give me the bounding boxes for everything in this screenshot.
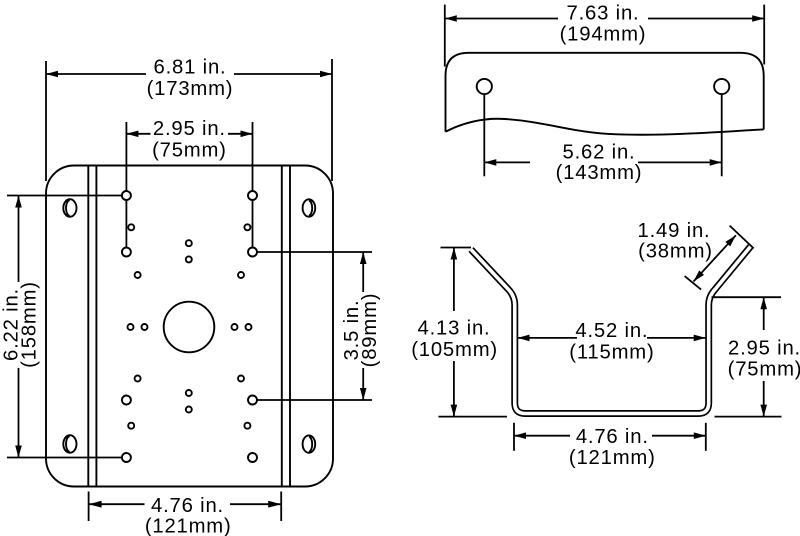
svg-text:(121mm): (121mm) — [569, 447, 656, 469]
dim 7.63 ext line left — [444, 5, 446, 67]
dim 1.49 arrow lower — [694, 270, 705, 281]
dim 6.81 arrow left — [46, 71, 58, 78]
strap wavy bottom edge — [446, 119, 764, 135]
svg-text:5.62 in.: 5.62 in. — [563, 141, 636, 163]
svg-text:(75mm): (75mm) — [728, 359, 800, 381]
bend line right inner — [281, 166, 283, 487]
dim 5.62 arrow right — [710, 159, 722, 166]
small hole B2 — [244, 224, 250, 230]
dim 4.76 plate arrow left — [89, 501, 102, 508]
pair hole E1 — [128, 324, 134, 330]
hole C4 — [248, 396, 257, 405]
dim 1.49 line — [694, 235, 736, 281]
pair hole E4 — [246, 324, 252, 330]
dim 6.81 ext line left — [45, 61, 47, 181]
svg-text:(194mm): (194mm) — [560, 23, 647, 45]
svg-text:3.5 in.(89mm): 3.5 in.(89mm) — [341, 293, 381, 368]
dim 4.76 plate line — [89, 503, 145, 505]
hole A4 — [248, 453, 257, 462]
channel sheet outer stroke — [471, 247, 751, 414]
dim 1.49 tick upper — [730, 226, 754, 249]
hole C1 — [122, 248, 131, 257]
dim 6.22 ext line top — [7, 195, 122, 197]
center small hole top1 — [186, 240, 192, 246]
dim 3.5 ext line bottom — [257, 399, 372, 401]
channel ref line bottom-left — [439, 416, 508, 418]
small hole B3 — [128, 423, 134, 429]
small hole D2 — [238, 272, 244, 278]
dim 4.52 line — [518, 337, 578, 339]
svg-text:(121mm): (121mm) — [145, 516, 232, 536]
small hole B1 — [128, 224, 134, 230]
dim 4.52 arrow right — [694, 335, 706, 342]
small hole B4 — [244, 423, 250, 429]
dim 6.81 line — [46, 73, 146, 75]
dim 1.49 arrow upper — [725, 235, 736, 246]
dim 4.76 channel tick left — [513, 423, 515, 451]
plate outline — [46, 166, 333, 487]
dim 2.95 arrow left — [126, 131, 138, 138]
dim 4.13 line — [453, 248, 455, 312]
dim 2.95 ext line left — [125, 122, 127, 191]
dim 5.62 ext line left — [483, 94, 485, 176]
dim 4.76 plate tick right — [280, 492, 282, 522]
dim 2.95 ext line right — [252, 122, 254, 191]
hole A2 — [248, 191, 257, 200]
dim 7.63 ext line right — [763, 5, 765, 65]
svg-text:2.95 in.: 2.95 in. — [153, 118, 226, 140]
dim 1.49 tick lower — [685, 276, 702, 290]
hole A1 — [122, 191, 131, 200]
dim 4.76 plate tick left — [88, 492, 90, 522]
dim 3.5 arrow down — [360, 388, 367, 400]
dim 6.22 ext line bottom — [7, 457, 122, 459]
dim 7.63 arrow left — [445, 15, 457, 22]
dim 4.76 channel arrow right — [694, 432, 706, 439]
dim 7.63 arrow right — [752, 15, 764, 22]
svg-text:(173mm): (173mm) — [147, 78, 234, 100]
svg-text:4.52 in.: 4.52 in. — [575, 320, 648, 342]
center small hole bottom2 — [186, 407, 192, 413]
channel ref line top-left — [441, 247, 472, 249]
center small hole top2 — [186, 256, 192, 262]
pair hole E3 — [232, 324, 238, 330]
bend line right outer — [289, 166, 291, 487]
dim 6.22 arrow down — [15, 446, 22, 458]
dim 6.81 arrow right — [320, 71, 332, 78]
dim 4.13 arrow up — [451, 248, 458, 260]
dim 5.62 ext line right — [721, 94, 723, 176]
svg-text:6.81 in.: 6.81 in. — [154, 57, 227, 79]
dim 4.76 plate arrow right — [268, 501, 281, 508]
dim 4.76 channel line — [514, 435, 570, 437]
dim 2.95 arrow right — [241, 131, 253, 138]
small hole D1 — [135, 272, 141, 278]
svg-text:4.13 in.: 4.13 in. — [418, 318, 491, 340]
svg-text:4.76 in.: 4.76 in. — [576, 426, 649, 448]
small hole D3 — [135, 376, 141, 382]
dim 6.81 ext line right — [331, 59, 333, 181]
dim 3.5 ext line top — [257, 251, 372, 253]
dim 2.95 line — [126, 133, 150, 135]
svg-text:(38mm): (38mm) — [638, 241, 713, 263]
dim 6.22 line — [18, 196, 20, 283]
dim 6.22 arrow up — [15, 196, 22, 208]
center large hole — [164, 302, 215, 353]
pair hole E2 — [142, 324, 148, 330]
dim 4.76 channel arrow left — [514, 432, 526, 439]
small hole D4 — [238, 376, 244, 382]
svg-text:7.63 in.: 7.63 in. — [567, 3, 640, 25]
channel ref line top-right — [712, 296, 782, 298]
dim 5.62 arrow left — [484, 159, 496, 166]
dim 2.95 channel arrow down — [760, 405, 767, 417]
dim 3.5 arrow up — [360, 252, 367, 264]
slot hole top-right — [303, 199, 316, 216]
strap hole right — [714, 79, 729, 94]
dim 5.62 line — [484, 161, 530, 163]
svg-text:(143mm): (143mm) — [556, 162, 643, 184]
dim 2.95 channel line — [763, 297, 765, 330]
strap hole left — [477, 79, 492, 94]
bend line left outer — [87, 166, 89, 487]
center small hole bottom1 — [186, 390, 192, 396]
slot hole top-left — [63, 199, 76, 217]
svg-text:2.95 in.: 2.95 in. — [728, 338, 800, 360]
hole C2 — [248, 248, 257, 257]
svg-text:(75mm): (75mm) — [152, 139, 227, 161]
svg-text:6.22 in.(158mm): 6.22 in.(158mm) — [1, 281, 41, 368]
dim 2.95 channel arrow up — [760, 297, 767, 309]
channel sheet inner white — [471, 247, 751, 414]
svg-text:(105mm): (105mm) — [411, 339, 498, 361]
dim 4.52 arrow left — [518, 335, 530, 342]
slot hole bottom-right — [303, 435, 316, 452]
dim 4.13 arrow down — [451, 405, 458, 417]
dim 4.76 channel tick right — [705, 423, 707, 451]
dim 3.5 line — [362, 252, 364, 292]
hole A3 — [122, 453, 131, 462]
svg-text:1.49 in.: 1.49 in. — [638, 220, 711, 242]
svg-text:4.76 in.: 4.76 in. — [151, 495, 224, 517]
strap outline — [446, 53, 764, 132]
bend line left inner — [95, 166, 97, 487]
channel ref line bottom-right — [715, 416, 782, 418]
slot hole bottom-left — [63, 435, 76, 453]
hole C3 — [122, 396, 131, 405]
svg-text:(115mm): (115mm) — [569, 341, 654, 363]
dim 7.63 line — [445, 18, 558, 20]
